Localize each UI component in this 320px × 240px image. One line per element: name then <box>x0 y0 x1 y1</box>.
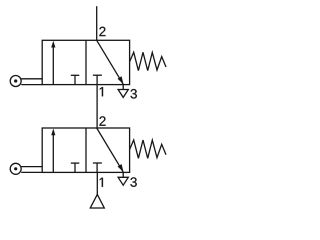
label port 3 V1 <box>131 89 137 98</box>
label port 1 V2 <box>100 178 103 187</box>
valve V1 body <box>42 40 129 84</box>
valve V1 blocked port (left position) <box>71 75 80 84</box>
valve V1 exhaust triangle port 3 <box>118 85 128 98</box>
valve V2 blocked port (left position) <box>71 163 80 172</box>
label port 3 V2 <box>130 177 136 186</box>
wire port 2 stub V1 <box>96 6 98 40</box>
wire V2 port 1 down <box>96 172 98 194</box>
valve V1 roller actuator <box>10 76 42 87</box>
label port 1 V1 <box>100 87 103 96</box>
valve V1 return spring <box>130 52 167 70</box>
valve V2 flow path 2->3 (right position) <box>97 128 124 172</box>
valve V2 roller actuator <box>10 163 42 174</box>
valve V1 flow path 2->3 (right position) <box>97 40 124 84</box>
wire V1 port 1 to V2 port 2 <box>96 85 98 128</box>
valve V1 blocked port 1 (right position) <box>93 75 102 84</box>
label port 2 V1 <box>99 27 105 36</box>
valve V2 blocked port 1 (right position) <box>93 163 102 172</box>
valve V2 flow arrow (left position, 1->2) <box>51 129 55 173</box>
valve V2 body <box>42 128 129 172</box>
pressure source triangle <box>90 194 104 208</box>
valve V2 exhaust triangle port 3 <box>118 172 128 185</box>
label port 2 V2 <box>99 116 105 125</box>
valve V2 return spring <box>130 140 167 158</box>
valve V1 flow arrow (left position, 1->2) <box>51 41 55 85</box>
